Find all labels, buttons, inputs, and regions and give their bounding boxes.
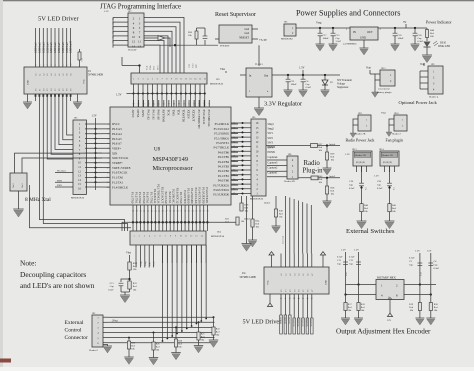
svg-text:0.3uF: 0.3uF [377, 187, 383, 190]
svg-text:6: 6 [55, 65, 57, 66]
svg-text:Sw: Sw [366, 187, 368, 190]
svg-text:(H) (H) (H): (H) (H) (H) [356, 161, 365, 164]
svg-text:{Vout: {Vout [112, 320, 118, 323]
svg-text:Header 6: Header 6 [89, 349, 98, 352]
svg-text:U8: U8 [154, 148, 161, 153]
svg-text:8: 8 [63, 65, 65, 66]
svg-text:3: 3 [43, 65, 45, 66]
svg-text:P3.3/UCLK0: P3.3/UCLK0 [194, 187, 198, 203]
svg-text:TDI: TDI [177, 110, 181, 115]
svg-text:Y0: Y0 [281, 290, 283, 292]
svg-text:Y1: Y1 [39, 89, 41, 91]
svg-text:P6.4/A4: P6.4/A4 [112, 132, 122, 136]
svg-text:4: 4 [108, 138, 109, 140]
svg-text:2: 2 [39, 65, 41, 66]
svg-text:ROTARY HEX: ROTARY HEX [377, 275, 397, 279]
svg-text:68: 68 [173, 104, 175, 106]
svg-text:Y7: Y7 [312, 290, 314, 292]
svg-text:11: 11 [107, 172, 109, 174]
svg-text:A7: A7 [311, 274, 314, 276]
svg-text:Lvrefour: Lvrefour [282, 236, 285, 244]
svg-text:1.5V: 1.5V [104, 10, 109, 13]
svg-text:P1.2/TA1: P1.2/TA1 [134, 192, 138, 204]
svg-text:A4: A4 [298, 274, 301, 276]
svg-text:A0: A0 [35, 74, 38, 76]
svg-text:Y4: Y4 [51, 89, 53, 91]
svg-text:Vbat: Vbat [126, 252, 131, 255]
svg-text:P5.4/MCLK: P5.4/MCLK [215, 122, 230, 126]
svg-text:Vbat: Vbat [220, 68, 225, 71]
svg-text:57: 57 [203, 211, 205, 213]
svg-text:P4.0/TB0: P4.0/TB0 [218, 179, 230, 183]
svg-text:VEREF+: VEREF+ [112, 161, 123, 165]
svg-text:8: 8 [108, 158, 109, 160]
svg-text:48: 48 [169, 211, 171, 213]
svg-text:A8: A8 [66, 74, 69, 76]
svg-text:0.3uF: 0.3uF [418, 40, 424, 43]
svg-text:8 MHz Xtal: 8 MHz Xtal [25, 197, 51, 203]
svg-text:Smg1: Smg1 [268, 123, 275, 126]
svg-text:1.5V: 1.5V [136, 261, 138, 266]
svg-text:P6.6/A7: P6.6/A7 [112, 142, 122, 146]
svg-text:P3.4/UTXD0: P3.4/UTXD0 [198, 187, 202, 204]
svg-text:P6.0/A0: P6.0/A0 [156, 110, 160, 121]
svg-text:A3: A3 [293, 274, 296, 276]
svg-text:6: 6 [108, 148, 109, 150]
svg-text:P2.0/ACLK: P2.0/ACLK [153, 189, 157, 204]
svg-text:GND: GND [325, 280, 328, 285]
svg-text:100nF: 100nF [323, 37, 330, 40]
svg-text:11: 11 [138, 40, 141, 44]
svg-text:67: 67 [168, 104, 170, 106]
svg-text:1.5V: 1.5V [374, 175, 379, 178]
svg-text:VREF+: VREF+ [112, 146, 121, 150]
svg-text:P4.7/TBCLK: P4.7/TBCLK [214, 146, 230, 150]
svg-text:1.5V: 1.5V [345, 153, 350, 156]
svg-text:P1.6/TA1: P1.6/TA1 [146, 192, 150, 204]
svg-text:11: 11 [185, 236, 187, 238]
svg-text:Header 2: Header 2 [392, 133, 401, 136]
svg-text:SW3: SW3 [268, 142, 274, 145]
svg-text:P6.5/A5: P6.5/A5 [112, 137, 122, 141]
svg-text:41: 41 [143, 211, 145, 213]
svg-text:1.5V: 1.5V [354, 249, 359, 252]
svg-text:VCC: VCC [267, 280, 270, 285]
svg-text:Y2: Y2 [290, 290, 292, 292]
svg-text:Header 4: Header 4 [429, 96, 439, 99]
svg-text:5: 5 [51, 65, 53, 66]
svg-text:SMg1: SMg1 [140, 261, 143, 266]
svg-text:1: 1 [108, 124, 109, 126]
svg-text:9: 9 [108, 163, 109, 165]
svg-text:2B2F5R: 2B2F5R [292, 319, 294, 327]
svg-text:DVCC: DVCC [112, 122, 120, 126]
svg-text:+3.3V: +3.3V [259, 38, 268, 42]
svg-text:A5: A5 [54, 74, 57, 76]
svg-text:2B2F5R: 2B2F5R [288, 317, 290, 325]
svg-text:Vout: Vout [366, 67, 371, 70]
svg-text:2B2F5R: 2B2F5R [297, 319, 299, 327]
svg-text:P3.5/URXD0: P3.5/URXD0 [201, 187, 205, 204]
svg-text:1: 1 [133, 79, 134, 81]
svg-text:Xtal1: Xtal1 [22, 183, 24, 188]
svg-text:RST/NMI: RST/NMI [161, 110, 165, 123]
svg-text:P1.2/TA1: P1.2/TA1 [112, 180, 124, 184]
svg-text:P2.2/CAOUT: P2.2/CAOUT [160, 187, 164, 204]
svg-text:Optional Power Jack: Optional Power Jack [399, 100, 438, 105]
svg-text:Power Supplies and Connectors: Power Supplies and Connectors [296, 9, 400, 18]
svg-text:69: 69 [178, 104, 180, 106]
svg-text:TCK: TCK [166, 110, 170, 117]
svg-text:46: 46 [162, 211, 164, 213]
svg-text:52: 52 [184, 211, 186, 213]
svg-text:TCK: TCK [147, 65, 149, 70]
svg-text:39: 39 [136, 211, 138, 213]
svg-text:U4: U4 [242, 272, 246, 275]
svg-text:P3.0/STE0: P3.0/STE0 [183, 190, 187, 204]
svg-text:54: 54 [192, 211, 194, 213]
svg-text:AVCC: AVCC [131, 110, 135, 118]
svg-text:Vbat: Vbat [381, 112, 386, 115]
svg-text:12: 12 [107, 177, 109, 179]
svg-text:P5.3/UCLK1: P5.3/UCLK1 [214, 127, 230, 131]
svg-text:P3.5/URXD0: P3.5/URXD0 [213, 193, 229, 197]
svg-text:1: 1 [36, 65, 38, 66]
svg-text:5: 5 [108, 143, 109, 145]
svg-text:Jmke1: Jmke1 [244, 218, 251, 221]
svg-text:P5.6/ACLK: P5.6/ACLK [202, 110, 206, 126]
svg-text:Y4: Y4 [299, 290, 301, 292]
svg-text:White LED: White LED [438, 45, 450, 48]
svg-text:Header 3H: Header 3H [382, 154, 393, 157]
svg-text:Jmke2: Jmke2 [264, 202, 271, 205]
svg-text:P4.1/TB1: P4.1/TB1 [218, 174, 230, 178]
svg-text:P1.7/TA2: P1.7/TA2 [149, 192, 153, 204]
svg-text:70: 70 [183, 104, 185, 106]
svg-text:Y6: Y6 [59, 89, 61, 91]
svg-text:Connector: Connector [65, 335, 88, 341]
svg-text:JTAG Programming Interface: JTAG Programming Interface [100, 4, 181, 11]
svg-text:44: 44 [154, 211, 156, 213]
svg-text:3: 3 [108, 134, 109, 136]
svg-text:XTO: XTO [193, 63, 195, 68]
svg-text:and LED's are not shown: and LED's are not shown [20, 281, 95, 290]
svg-text:0.3uF: 0.3uF [349, 187, 355, 190]
svg-text:66: 66 [163, 104, 165, 106]
svg-text:2B2F5R: 2B2F5R [310, 319, 312, 327]
svg-text:11: 11 [180, 79, 182, 81]
svg-text:XT2: XT2 [189, 64, 191, 68]
svg-text:64: 64 [153, 104, 155, 106]
svg-text:External Switches: External Switches [346, 228, 395, 235]
svg-text:47: 47 [165, 211, 167, 213]
svg-text:PW2: PW2 [154, 262, 156, 266]
svg-text:LEDOut4: LEDOut4 [46, 42, 49, 53]
svg-text:2: 2 [138, 79, 139, 81]
svg-text:Power Indicator: Power Indicator [426, 20, 452, 25]
svg-text:Y5: Y5 [303, 290, 305, 292]
svg-text:13: 13 [107, 182, 109, 184]
svg-text:Jmke4: Jmke4 [329, 143, 336, 146]
svg-text:P6.1/A1: P6.1/A1 [151, 110, 155, 121]
svg-text:SMg2: SMg2 [144, 261, 147, 266]
svg-text:1.5V: 1.5V [116, 94, 122, 97]
svg-text:A7: A7 [62, 74, 65, 76]
svg-text:A3: A3 [46, 74, 49, 76]
svg-text:P2.5/ROSC: P2.5/ROSC [172, 189, 176, 203]
svg-text:DVSS: DVSS [136, 110, 140, 118]
svg-text:1.5V: 1.5V [427, 250, 432, 253]
svg-text:MHDR1X16: MHDR1X16 [210, 83, 224, 86]
svg-text:Y9: Y9 [71, 89, 73, 91]
svg-text:NRESET: NRESET [239, 37, 249, 40]
svg-text:A5: A5 [302, 274, 305, 276]
svg-text:38: 38 [132, 211, 134, 213]
svg-text:5V LED Driver: 5V LED Driver [243, 319, 282, 326]
svg-text:(H) (H) (H): (H) (H) (H) [383, 161, 392, 164]
svg-text:51: 51 [180, 211, 182, 213]
svg-text:P4.6/TB6: P4.6/TB6 [218, 150, 230, 154]
svg-text:OUT: OUT [367, 31, 373, 34]
svg-text:A0: A0 [280, 274, 283, 276]
svg-text:Y5: Y5 [55, 89, 57, 91]
svg-text:PWM2: PWM2 [268, 146, 276, 149]
svg-text:A4: A4 [50, 74, 53, 76]
svg-text:9: 9 [171, 79, 172, 81]
svg-text:VREF-/VEREF-: VREF-/VEREF- [112, 166, 131, 170]
svg-text:5V: 5V [403, 21, 406, 24]
svg-text:13: 13 [138, 44, 142, 48]
svg-text:Gnd: Gnd [245, 28, 250, 31]
svg-text:A9: A9 [70, 74, 73, 76]
svg-text:Capture3: Capture3 [268, 161, 279, 164]
svg-text:P6D1: P6D1 [57, 185, 63, 187]
svg-text:TMS: TMS [150, 65, 152, 70]
svg-text:SW2: SW2 [268, 137, 274, 140]
svg-text:3.3uF: 3.3uF [336, 40, 342, 43]
svg-text:1: 1 [133, 236, 134, 238]
svg-text:TDO/TDI: TDO/TDI [182, 110, 186, 122]
svg-text:Header 3H: Header 3H [355, 154, 366, 157]
svg-text:Y3: Y3 [294, 290, 296, 292]
svg-text:AVSS: AVSS [141, 110, 145, 118]
svg-text:LEDOut3: LEDOut3 [42, 42, 45, 53]
svg-text:49: 49 [173, 211, 175, 213]
svg-text:Suppressor: Suppressor [337, 86, 349, 89]
svg-text:Battery plugin: Battery plugin [377, 91, 392, 94]
svg-text:Y6: Y6 [308, 290, 310, 292]
svg-text:7: 7 [108, 153, 109, 155]
svg-text:TL1013: TL1013 [255, 63, 264, 66]
svg-text:P2.7/TA0: P2.7/TA0 [179, 192, 183, 204]
svg-text:1.5V: 1.5V [415, 250, 420, 253]
svg-text:P5.0/STE1: P5.0/STE1 [216, 141, 229, 145]
svg-text:A1: A1 [285, 274, 288, 276]
svg-text:Reset Supervisor: Reset Supervisor [215, 12, 256, 18]
svg-text:Y0: Y0 [36, 89, 38, 91]
svg-text:PW1: PW1 [149, 262, 151, 266]
svg-text:LEDOut2: LEDOut2 [39, 42, 42, 53]
svg-text:Vreg: Vreg [316, 22, 322, 25]
svg-text:P3.1/SIMO0: P3.1/SIMO0 [187, 188, 191, 204]
svg-text:0.3uF: 0.3uF [434, 267, 440, 270]
svg-text:71: 71 [188, 104, 190, 106]
svg-text:LEDOut6: LEDOut6 [54, 42, 57, 53]
svg-text:2: 2 [108, 129, 109, 131]
svg-text:Y1: Y1 [286, 290, 288, 292]
svg-text:MHDR1X2: MHDR1X2 [281, 38, 294, 41]
svg-text:Fan plugin: Fan plugin [386, 137, 403, 142]
svg-text:SW1: SW1 [268, 132, 274, 135]
svg-text:58: 58 [206, 211, 208, 213]
svg-text:P4.3/TB3: P4.3/TB3 [218, 165, 230, 169]
svg-text:Gnd: Gnd [245, 32, 250, 35]
svg-text:P2.3/CA0: P2.3/CA0 [164, 191, 168, 203]
svg-text:Radio: Radio [304, 160, 321, 167]
svg-text:100nF: 100nF [398, 37, 405, 40]
svg-text:uA78M08KC: uA78M08KC [343, 43, 357, 46]
svg-text:Decoupling capacitors: Decoupling capacitors [20, 270, 86, 279]
svg-text:LEDOut9: LEDOut9 [66, 42, 69, 53]
svg-text:P5.7/TBOUTH: P5.7/TBOUTH [197, 110, 201, 130]
svg-text:43: 43 [151, 211, 153, 213]
svg-text:P2.1/TAINCLK: P2.1/TAINCLK [157, 184, 161, 204]
svg-text:TDO: TDO [157, 65, 159, 70]
svg-text:55: 55 [195, 211, 197, 213]
svg-text:XOUT/TCLK: XOUT/TCLK [112, 156, 129, 160]
svg-text:P5.2/SOMI1: P5.2/SOMI1 [214, 132, 229, 136]
svg-text:MHDR1X16: MHDR1X16 [250, 198, 264, 201]
svg-text:Y2: Y2 [43, 89, 45, 91]
svg-text:MHDR1X16: MHDR1X16 [71, 197, 85, 200]
svg-text:42: 42 [147, 211, 149, 213]
svg-text:75: 75 [208, 104, 210, 106]
svg-text:Microprocessor: Microprocessor [153, 165, 194, 172]
svg-text:50: 50 [177, 211, 179, 213]
svg-text:53: 53 [188, 211, 190, 213]
svg-text:P3.7/URXD1: P3.7/URXD1 [213, 183, 229, 187]
svg-text:1.5V: 1.5V [92, 115, 97, 118]
svg-text:P4.2/TB2: P4.2/TB2 [218, 169, 230, 173]
svg-text:10: 10 [132, 35, 136, 39]
svg-text:1.5V: 1.5V [299, 67, 305, 70]
svg-text:PID0: PID0 [57, 180, 63, 182]
svg-text:XT2OUT: XT2OUT [192, 110, 196, 122]
svg-text:5974HC14DB: 5974HC14DB [88, 74, 103, 77]
svg-text:2B2F5R: 2B2F5R [283, 317, 285, 325]
svg-text:10: 10 [71, 64, 73, 66]
svg-text:MHDR1X14: MHDR1X14 [211, 235, 225, 238]
svg-text:JTAG3P: JTAG3P [128, 49, 137, 52]
svg-text:XT2IN: XT2IN [187, 110, 191, 120]
svg-text:A1: A1 [38, 74, 41, 76]
svg-text:72: 72 [193, 104, 195, 106]
svg-text:0.3uF: 0.3uF [306, 86, 312, 89]
svg-text:A2: A2 [42, 74, 45, 76]
svg-text:A6: A6 [58, 74, 61, 76]
svg-text:2: 2 [139, 236, 140, 238]
svg-text:56: 56 [199, 211, 201, 213]
svg-text:Y3: Y3 [47, 89, 49, 91]
svg-text:MSP430F149: MSP430F149 [153, 156, 189, 163]
svg-text:PWM1: PWM1 [268, 151, 276, 154]
svg-text:TDI: TDI [154, 66, 156, 70]
svg-text:P1.1/TA0: P1.1/TA0 [131, 192, 135, 204]
svg-text:VCC: VCC [83, 79, 86, 84]
svg-text:Y8: Y8 [67, 89, 69, 91]
svg-text:LEDOut7: LEDOut7 [58, 42, 61, 53]
svg-text:Output Adjustment Hex Encoder: Output Adjustment Hex Encoder [336, 328, 431, 336]
svg-text:9: 9 [175, 236, 176, 238]
svg-text:1.5V: 1.5V [341, 249, 346, 252]
svg-text:5974HC14DB: 5974HC14DB [240, 276, 256, 279]
svg-text:Y7: Y7 [63, 89, 65, 91]
svg-text:12: 12 [190, 236, 192, 238]
svg-text:1.5V: 1.5V [82, 57, 84, 62]
svg-text:TPS3820: TPS3820 [220, 45, 230, 48]
svg-text:14: 14 [107, 187, 109, 189]
svg-text:LEDOut1: LEDOut1 [35, 42, 38, 53]
svg-text:A2: A2 [289, 274, 292, 276]
svg-text:P2.6/ADC12: P2.6/ADC12 [175, 188, 179, 204]
svg-text:2B2F5R: 2B2F5R [305, 319, 307, 327]
svg-text:P4.5/TB5: P4.5/TB5 [218, 155, 230, 159]
svg-text:Smg2: Smg2 [268, 128, 275, 131]
svg-text:3.3V Regulator: 3.3V Regulator [264, 101, 302, 108]
svg-text:Header 2K: Header 2K [355, 133, 366, 136]
svg-text:A6: A6 [307, 274, 310, 276]
svg-text:Capture1: Capture1 [268, 172, 279, 175]
svg-text:P5.5/SMCLK: P5.5/SMCLK [207, 110, 211, 128]
svg-text:P5.1/SIMO1: P5.1/SIMO1 [214, 136, 229, 140]
svg-text:7: 7 [59, 65, 61, 66]
svg-text:P1.0/TACLK: P1.0/TACLK [112, 171, 128, 175]
svg-text:4: 4 [47, 65, 49, 66]
svg-text:12: 12 [185, 79, 187, 81]
svg-text:Capture4: Capture4 [268, 156, 279, 159]
svg-text:GND: GND [360, 37, 366, 40]
svg-text:P6.2/A2: P6.2/A2 [146, 110, 150, 121]
svg-text:LEDOut5: LEDOut5 [50, 42, 53, 53]
svg-text:Thermal: Thermal [57, 170, 66, 173]
svg-text:Radio Power Jack: Radio Power Jack [346, 137, 375, 142]
svg-text:10: 10 [107, 167, 109, 169]
svg-text:P3.6/UTXD1: P3.6/UTXD1 [205, 187, 209, 204]
svg-text:P3.6/UTXD1: P3.6/UTXD1 [214, 188, 230, 192]
svg-text:IN: IN [353, 31, 356, 34]
svg-text:TMS: TMS [172, 110, 176, 117]
svg-text:P3.2/SOMI0: P3.2/SOMI0 [190, 188, 194, 204]
svg-text:Control: Control [65, 328, 83, 334]
svg-text:Sw: Sw [394, 187, 396, 190]
svg-text:2B2F5R: 2B2F5R [301, 319, 303, 327]
svg-text:P1.4/SMCLK: P1.4/SMCLK [112, 185, 129, 189]
svg-text:LEDOut8: LEDOut8 [62, 42, 65, 53]
svg-text:Xtal1: Xtal1 [13, 183, 15, 188]
svg-text:Header 4H: Header 4H [284, 180, 295, 183]
svg-text:Capture2: Capture2 [268, 166, 279, 169]
svg-text:P1.5/TA0: P1.5/TA0 [142, 192, 146, 204]
svg-text:P1.3/TA2: P1.3/TA2 [138, 192, 142, 204]
svg-text:P4.4/TB4: P4.4/TB4 [218, 160, 230, 164]
svg-text:LEDOut10: LEDOut10 [70, 40, 73, 53]
svg-text:Note:: Note: [20, 259, 36, 268]
svg-text:12: 12 [132, 40, 136, 44]
svg-text:45: 45 [158, 211, 160, 213]
svg-text:5V LED Driver: 5V LED Driver [38, 16, 80, 23]
svg-text:12V: 12V [387, 319, 391, 322]
svg-text:External: External [65, 320, 84, 326]
